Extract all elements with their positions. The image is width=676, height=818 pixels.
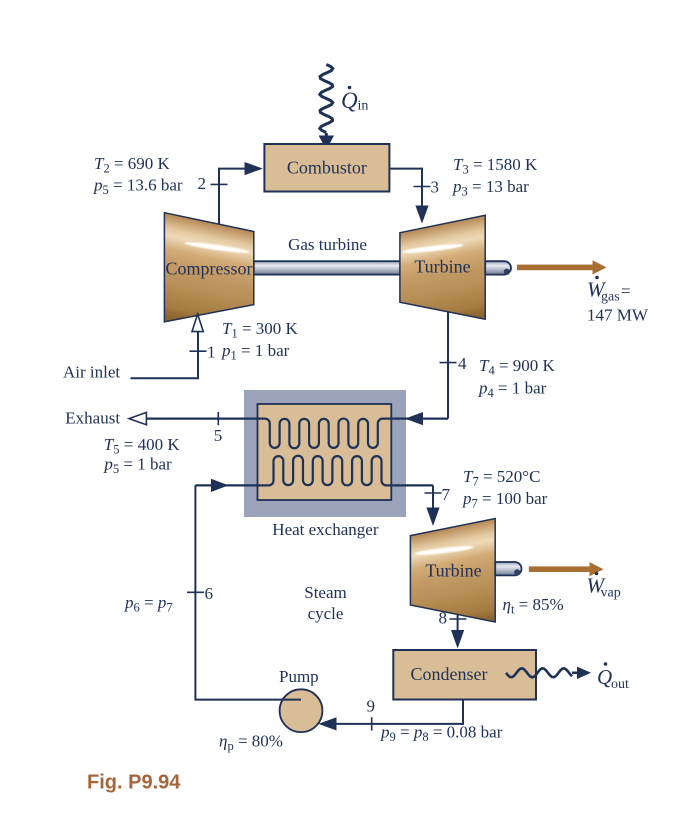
wire: state 4 turbine to heat exchanger [447,312,449,419]
node 3 tick [414,186,431,188]
combustor box [264,144,389,192]
node 5 tick [217,412,219,425]
Wdot vap arrow [529,562,604,576]
svg-text:8: 8 [439,609,448,628]
svg-text:Fig. P9.94: Fig. P9.94 [87,772,181,794]
shaft stub right of gas turbine [485,261,511,275]
svg-text:Condenser: Condenser [411,664,488,684]
svg-text:5: 5 [214,426,223,445]
svg-text:9: 9 [367,697,376,716]
node 2 tick [211,183,228,185]
wire: Qin squiggle into combustor [319,65,334,151]
wire: exhaust line + top coil (gas side) [146,419,448,449]
svg-text:Q: Q [597,665,612,689]
turbine U2 (steam) [410,519,495,623]
wire: state 3 combustor to turbine [390,169,429,224]
svg-text:p6 = p7: p6 = p7 [124,593,173,615]
svg-text:147 MW: 147 MW [587,306,649,325]
svg-text:Steam: Steam [304,583,347,602]
svg-text:2: 2 [198,174,207,193]
label T5 p5 [103,435,180,476]
shaft gas turbine [254,261,400,274]
wire: state 2 compressor to combustor [219,162,263,225]
label T3 p3 [452,155,538,199]
label T2 p5 [93,154,183,197]
pump P1 [280,689,323,732]
svg-text:Combustor: Combustor [287,158,367,178]
svg-text:Compressor: Compressor [166,259,253,279]
svg-text:Pump: Pump [279,667,319,686]
shaft stub right of steam turbine [495,562,521,576]
node 1 tick [190,350,207,352]
node 4 tick [440,362,457,364]
exhaust open arrowhead [129,412,146,424]
node 9 tick [371,717,373,730]
label Wdot_vap [587,572,621,601]
svg-text:out: out [611,677,629,692]
wire: state 7 exchanger to steam turbine [426,485,439,526]
svg-text:Heat exchanger: Heat exchanger [272,520,379,539]
svg-text:Turbine: Turbine [414,257,470,277]
svg-text:Air inlet: Air inlet [63,363,120,382]
label Steam cycle [304,583,347,623]
condenser box [393,650,536,700]
heat exchanger inner box [258,404,392,500]
arrowhead into exchanger (gas, points left) [405,412,423,425]
wire: pump inlet overlay segment [283,699,301,701]
svg-text:6: 6 [205,584,214,603]
svg-text:Gas turbine: Gas turbine [288,235,367,254]
svg-text:vap: vap [601,586,621,601]
label Qdot_in [341,86,368,114]
wire: state 8 turbine to condenser [451,615,464,649]
label T4 p4 [478,356,556,400]
svg-text:Exhaust: Exhaust [65,409,120,428]
label T1 p1 [221,319,299,363]
node 7 tick [425,492,442,494]
node 6 tick [187,591,204,593]
svg-text:gas: gas [601,290,620,305]
svg-text:Turbine: Turbine [425,561,481,581]
label Wdot_gas = 147 MW [587,276,649,325]
air inlet arrow (open) [131,314,204,378]
turbine U1 (gas) [400,215,485,319]
heat exchanger outer shell [244,390,406,517]
svg-text:7: 7 [442,485,451,504]
svg-text:Q: Q [341,88,358,113]
svg-text:4: 4 [458,354,467,373]
svg-text:in: in [358,99,369,114]
svg-text:3: 3 [431,178,440,197]
svg-text:p9 = p8 = 0.08 bar: p9 = p8 = 0.08 bar [380,723,503,745]
Qout squiggle [506,667,591,679]
wire: state 6 pump up to heat exchanger [195,485,301,699]
Wdot gas arrow [517,260,607,274]
label T7 p7 [462,467,548,511]
wire: state 9 condenser to pump [318,700,463,731]
svg-text:1: 1 [207,343,216,362]
arrowhead into exchanger (water, points right) [211,479,229,492]
label Qdot_out [597,662,629,692]
compressor [164,213,253,322]
svg-text:cycle: cycle [308,604,344,623]
node 8 tick [450,618,467,620]
wire: bottom coil (water side) [195,456,433,486]
svg-text:=: = [621,282,631,301]
